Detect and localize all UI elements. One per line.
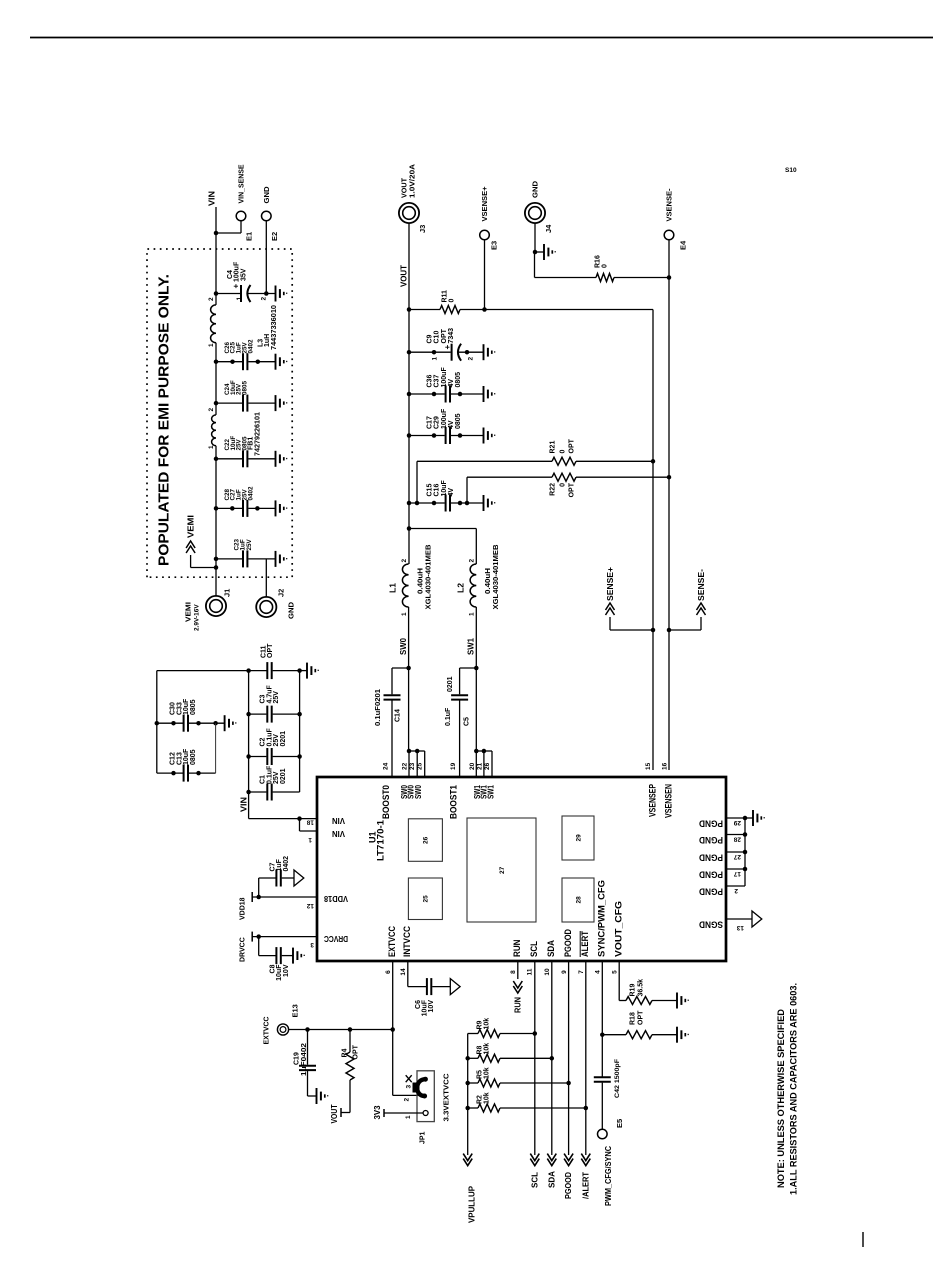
svg-text:VDD18: VDD18 — [323, 894, 348, 903]
wire RUN pin with net arrow — [517, 961, 519, 979]
svg-text:+: + — [232, 284, 241, 289]
svg-text:VOUT: VOUT — [400, 178, 409, 198]
svg-text:1: 1 — [469, 612, 476, 616]
svg-text:SW1: SW1 — [466, 638, 476, 655]
svg-text:20: 20 — [469, 762, 476, 770]
wire VIN bank top link — [156, 671, 158, 774]
svg-text:SW1: SW1 — [486, 785, 495, 799]
svg-text:C10: C10 — [434, 331, 441, 344]
svg-text:C5: C5 — [464, 717, 471, 726]
svg-text:10k: 10k — [484, 1092, 491, 1104]
svg-text:R21: R21 — [550, 441, 557, 454]
svg-text:25V: 25V — [246, 538, 253, 550]
wire VIN caps ground rail — [299, 671, 301, 792]
svg-text:0: 0 — [560, 483, 567, 487]
svg-text:2: 2 — [261, 297, 268, 301]
svg-text:13: 13 — [736, 924, 744, 931]
svg-text:0805: 0805 — [242, 380, 249, 395]
svg-text:E1: E1 — [245, 232, 254, 241]
jumper JP1 3.3VEXTVCC — [417, 1071, 434, 1122]
svg-text:2: 2 — [401, 559, 408, 563]
svg-text:VEMI: VEMI — [184, 602, 193, 622]
polarized capacitor C4 100uF 35V — [214, 291, 219, 296]
capacitor C24 — [214, 401, 219, 406]
signal ground SGND triangle — [752, 911, 762, 927]
svg-text:15: 15 — [645, 762, 652, 770]
wire VSENSEP sense line — [652, 310, 654, 771]
net arrow SCL — [530, 1159, 539, 1166]
resistor R5 10k — [465, 1081, 470, 1086]
capacitor C2 0.1uF — [246, 754, 251, 759]
wire VIN rail from J1 through EMI filter — [215, 446, 217, 596]
inductor L3 1uH 744373360 10 — [211, 305, 216, 343]
svg-text:27: 27 — [499, 866, 506, 874]
svg-text:17: 17 — [733, 870, 741, 877]
svg-text:28: 28 — [576, 896, 583, 904]
svg-text:74279226101: 74279226101 — [255, 412, 262, 456]
svg-text:100uF: 100uF — [441, 367, 448, 388]
svg-text:27: 27 — [733, 853, 741, 860]
wire SGND pin stub — [726, 918, 752, 920]
header rule — [30, 37, 933, 39]
svg-text:VOUT: VOUT — [398, 264, 408, 287]
svg-text:R11: R11 — [442, 290, 449, 303]
banana jack J4 GND — [525, 203, 545, 223]
svg-text:S10: S10 — [785, 167, 797, 174]
svg-text:EXTVCC: EXTVCC — [387, 926, 397, 957]
svg-text:4V: 4V — [448, 379, 455, 388]
wire VPULLUP rail — [467, 1034, 469, 1156]
resistor R21 0 OPT — [416, 461, 418, 503]
resistor R11 0 — [407, 307, 412, 312]
svg-text:0805: 0805 — [242, 436, 249, 451]
svg-text:SGND: SGND — [699, 920, 723, 930]
svg-text:1: 1 — [405, 1115, 412, 1119]
svg-text:SDA: SDA — [546, 1171, 556, 1188]
svg-text:0: 0 — [560, 450, 567, 454]
svg-text:OPT: OPT — [267, 643, 274, 658]
wire VIN feed to IC pins 18 1 — [249, 818, 300, 820]
svg-text:11: 11 — [527, 968, 534, 975]
svg-text:C29: C29 — [434, 416, 441, 429]
svg-text:1.0V/20A: 1.0V/20A — [410, 164, 417, 198]
capacitor C30 C33 — [157, 722, 184, 724]
svg-text:16: 16 — [662, 762, 669, 770]
svg-text:3: 3 — [310, 941, 314, 948]
svg-text:R2: R2 — [477, 1095, 484, 1104]
net tie VOUT at R4 — [340, 1108, 342, 1117]
svg-text:1: 1 — [432, 357, 439, 361]
svg-text:3V3: 3V3 — [373, 1105, 382, 1120]
svg-text:35V: 35V — [240, 268, 247, 281]
svg-text:C19: C19 — [294, 1052, 301, 1065]
svg-text:L1: L1 — [388, 583, 398, 593]
svg-text:23: 23 — [409, 762, 416, 770]
svg-text:+: + — [443, 345, 452, 350]
svg-text:R22: R22 — [550, 483, 557, 496]
svg-text:PGOOD: PGOOD — [563, 929, 573, 957]
svg-text:SENSE-: SENSE- — [696, 569, 706, 601]
wire C12 bank to ground node — [215, 723, 217, 773]
svg-text:7343: 7343 — [448, 328, 455, 344]
svg-text:SCL: SCL — [529, 941, 539, 957]
svg-text:SDA: SDA — [546, 940, 556, 957]
wire L2 up to VOUT rail — [475, 529, 477, 565]
svg-text:0201: 0201 — [447, 676, 454, 692]
svg-text:J1: J1 — [223, 589, 232, 597]
svg-text:VSENSE+: VSENSE+ — [480, 186, 489, 222]
svg-text:PGND: PGND — [699, 870, 723, 880]
turret E4 VSENSE- — [668, 240, 670, 278]
net arrow SENSE- — [667, 628, 672, 633]
svg-text:4: 4 — [595, 970, 602, 974]
svg-text:29: 29 — [733, 819, 741, 826]
svg-text:C37: C37 — [434, 375, 441, 388]
wire J4 to R16 — [534, 252, 536, 278]
wire VOUT_CFG pin — [618, 961, 620, 1001]
capacitor C12 C13 — [157, 772, 184, 774]
svg-text:BOOST0: BOOST0 — [381, 785, 391, 819]
svg-text:24: 24 — [383, 762, 390, 770]
svg-text:PWM_CFG/SYNC: PWM_CFG/SYNC — [604, 1146, 613, 1206]
banana jack J1 VEMI input — [206, 596, 226, 616]
capacitor C23 — [214, 557, 219, 562]
IC inner block 28 — [562, 878, 594, 922]
banana jack J2 GND input — [256, 597, 276, 617]
svg-text:VOUT: VOUT — [330, 1104, 339, 1123]
svg-text:0402: 0402 — [247, 486, 254, 501]
svg-text:5: 5 — [612, 970, 619, 974]
svg-text:E13: E13 — [291, 1004, 300, 1017]
turret E3 VSENSE+ — [482, 307, 487, 312]
resistor R16 0 — [596, 274, 614, 282]
svg-text:LT7170-1: LT7170-1 — [376, 820, 386, 861]
svg-text:36.5k: 36.5k — [638, 979, 645, 997]
svg-text:PGND: PGND — [699, 819, 723, 829]
svg-text:C42 1500pF: C42 1500pF — [614, 1059, 621, 1098]
wire PGOOD pin — [568, 961, 570, 1155]
svg-text:OPT: OPT — [569, 482, 576, 497]
wire VIN feed rail — [248, 671, 250, 819]
IC inner block 27 — [467, 818, 536, 922]
capacitor C7 1uF 0402 — [256, 895, 261, 900]
IC inner block 26 — [408, 819, 442, 862]
capacitor C28 C27 — [214, 506, 219, 511]
resistor R19 36.5k — [626, 997, 652, 1005]
svg-text:0805: 0805 — [455, 372, 462, 388]
inductor L2 0.40uH — [470, 564, 476, 607]
svg-text:22: 22 — [402, 762, 409, 770]
banana jack J3 VOUT — [399, 203, 419, 223]
svg-text:PGND: PGND — [699, 887, 723, 897]
svg-text:FB1: FB1 — [248, 437, 255, 450]
wire SCL pin — [534, 961, 536, 1155]
svg-text:8: 8 — [510, 970, 517, 974]
capacitor C36 C37 100uF — [407, 392, 412, 397]
jumper JP1 no-connect X mark — [406, 1075, 412, 1082]
svg-text:VIN: VIN — [239, 797, 249, 812]
svg-text:2: 2 — [468, 357, 475, 361]
svg-text:4V: 4V — [448, 420, 455, 429]
IC U1 LT7170-1 body — [317, 777, 726, 961]
capacitor C11 OPT — [157, 670, 267, 672]
svg-text:10k: 10k — [484, 1018, 491, 1030]
svg-text:74437336010: 74437336010 — [271, 305, 278, 350]
svg-text:R4: R4 — [341, 1048, 348, 1057]
svg-text:0402: 0402 — [247, 339, 254, 354]
svg-text:VSENSEN: VSENSEN — [664, 784, 674, 818]
turret E2 GND — [264, 291, 269, 296]
svg-text:0805: 0805 — [190, 749, 197, 765]
svg-text:0.1uF: 0.1uF — [445, 707, 452, 726]
svg-text:25: 25 — [423, 895, 430, 903]
svg-text:POPULATED FOR EMI PURPOSE ONLY: POPULATED FOR EMI PURPOSE ONLY. — [156, 274, 173, 566]
capacitor C8 10uF 10V — [256, 934, 261, 939]
wire ALERT pin — [585, 961, 587, 1155]
wire SW1 node — [475, 607, 477, 751]
svg-text:9: 9 — [561, 970, 568, 974]
capacitor C26 C25 — [214, 359, 219, 364]
svg-text:10V: 10V — [283, 964, 290, 977]
IC inner block 25 — [408, 878, 442, 920]
svg-text:1uF0402: 1uF0402 — [301, 1043, 308, 1076]
svg-text:SENSE+: SENSE+ — [605, 567, 615, 601]
wire J2 to C23 ground node — [265, 559, 267, 597]
wire INTVCC pin — [407, 961, 409, 987]
svg-text:1: 1 — [401, 612, 408, 616]
svg-text:NOTE: UNLESS OTHERWISE SPECIFI: NOTE: UNLESS OTHERWISE SPECIFIED — [776, 1008, 786, 1188]
capacitor C42 1500pF — [594, 1081, 611, 1083]
svg-text:3: 3 — [405, 1085, 412, 1089]
wire SW1 pin bar — [476, 750, 492, 752]
svg-text:J4: J4 — [544, 224, 553, 233]
wire EXTVCC pin — [392, 961, 394, 1095]
wire SW0 pin bar — [409, 750, 425, 752]
wire SDA pin — [551, 961, 553, 1155]
svg-text:L2: L2 — [455, 583, 465, 593]
net arrow VPULLUP — [463, 1159, 472, 1166]
svg-text:OPT: OPT — [638, 1010, 645, 1025]
svg-text:4V: 4V — [448, 488, 455, 497]
svg-text:3.3VEXTVCC: 3.3VEXTVCC — [444, 1074, 451, 1122]
svg-text:VSENSE-: VSENSE- — [665, 188, 674, 221]
svg-text:2.9V-16V: 2.9V-16V — [194, 604, 201, 631]
resistor R8 10k — [465, 1056, 470, 1061]
svg-text:0.1uF0201: 0.1uF0201 — [375, 689, 382, 726]
svg-text:PGND: PGND — [699, 835, 723, 845]
svg-text:26: 26 — [423, 836, 430, 844]
IC inner block 29 — [562, 816, 594, 860]
svg-text:R16: R16 — [595, 255, 602, 268]
svg-text:XGL4030-401MEB: XGL4030-401MEB — [491, 544, 500, 610]
svg-text:C16: C16 — [434, 484, 441, 497]
net tie 3V3 at JP1 pin 1 — [384, 1112, 423, 1114]
svg-text:10k: 10k — [484, 1043, 491, 1055]
capacitor C15 C16 10uF — [407, 501, 412, 506]
capacitor C5 boost1 0.1uF 0201 — [459, 701, 461, 777]
resistor R4 OPT — [348, 1027, 353, 1032]
ground at PGND bar — [745, 817, 753, 819]
svg-text:10k: 10k — [484, 1067, 491, 1079]
svg-text:2: 2 — [208, 408, 215, 412]
turret E1 VIN_SENSE — [214, 231, 219, 236]
svg-text:VDD18: VDD18 — [240, 897, 247, 920]
wire L1 to VOUT rail — [408, 223, 410, 564]
capacitor C19 1uF0402 — [305, 1027, 310, 1032]
turret E13 EXTVCC — [277, 1024, 288, 1035]
signal ground for C7 — [294, 870, 304, 886]
svg-text:DRVCC: DRVCC — [240, 937, 247, 962]
svg-text:PGND: PGND — [699, 853, 723, 863]
svg-text:RUN: RUN — [513, 997, 523, 1013]
svg-text:OPT: OPT — [353, 1044, 360, 1059]
svg-text:2: 2 — [469, 559, 476, 563]
svg-text:1: 1 — [236, 297, 243, 301]
svg-text:7: 7 — [578, 970, 585, 974]
svg-text:RUN: RUN — [512, 940, 522, 958]
svg-text:VIN_SENSE: VIN_SENSE — [237, 165, 246, 204]
svg-text:1: 1 — [208, 445, 215, 449]
svg-text:J3: J3 — [418, 225, 427, 233]
capacitor C14 boost0 0.1uF 0201 — [391, 701, 393, 777]
wire PGND pin stubs — [726, 817, 745, 819]
capacitor C3 4.7uF — [246, 712, 251, 717]
svg-text:XGL4030-401MEB: XGL4030-401MEB — [423, 544, 432, 610]
svg-text:28: 28 — [733, 836, 741, 843]
dotted box POPULATED FOR EMI PURPOSE ONLY — [147, 249, 292, 577]
inductor L1 0.40uH — [402, 564, 408, 607]
svg-text:VIN: VIN — [207, 191, 217, 206]
svg-text:E4: E4 — [679, 240, 688, 250]
svg-text:R8: R8 — [477, 1045, 484, 1054]
svg-text:10uF: 10uF — [441, 479, 448, 496]
resistor R18 OPT — [602, 1034, 626, 1036]
svg-text:0: 0 — [449, 299, 456, 303]
svg-text:0201: 0201 — [280, 768, 287, 784]
ground for C8 — [292, 948, 294, 964]
net arrow SDA — [547, 1159, 556, 1166]
wire SYNC/PWM_CFG pin — [601, 961, 603, 1077]
svg-text:100uF: 100uF — [441, 408, 448, 429]
wire SW0 node — [408, 607, 410, 751]
svg-text:GND: GND — [262, 186, 271, 204]
svg-text:J2: J2 — [277, 589, 286, 597]
svg-text:R18: R18 — [630, 1012, 637, 1025]
svg-text:DRVCC: DRVCC — [324, 934, 348, 943]
svg-text:OPT: OPT — [569, 438, 576, 453]
svg-text:2: 2 — [403, 1098, 410, 1102]
capacitor C17 C29 100uF — [407, 433, 412, 438]
capacitor C1 0.1uF — [246, 790, 251, 795]
svg-text:BOOST1: BOOST1 — [448, 785, 458, 819]
svg-text:0805: 0805 — [190, 699, 197, 715]
svg-text:PGOOD: PGOOD — [563, 1172, 573, 1199]
svg-text:10V: 10V — [428, 1000, 435, 1013]
svg-text:E5: E5 — [615, 1119, 624, 1128]
svg-text:29: 29 — [576, 834, 583, 842]
signal ground for C6 — [450, 979, 460, 995]
svg-text:0402: 0402 — [283, 856, 290, 872]
svg-text:1: 1 — [208, 343, 215, 347]
svg-text:VEMI: VEMI — [186, 515, 196, 538]
svg-text:GND: GND — [287, 601, 296, 619]
page mark tick bottom right — [862, 1232, 864, 1247]
svg-text:JP1: JP1 — [419, 1131, 426, 1144]
svg-text:10: 10 — [544, 968, 551, 976]
capacitor C6 10uF 10V — [408, 986, 426, 988]
svg-text:R9: R9 — [477, 1020, 484, 1029]
svg-text:/ALERT: /ALERT — [580, 1171, 590, 1199]
ground at J4 — [543, 244, 545, 260]
svg-text:0805: 0805 — [455, 413, 462, 429]
net arrow VEMI — [191, 567, 216, 569]
svg-text:0: 0 — [602, 264, 609, 268]
net arrow SENSE+ — [651, 628, 656, 633]
wire J4 to ground — [534, 223, 536, 252]
svg-text:VPULLUP: VPULLUP — [466, 1186, 476, 1223]
svg-text:SW0: SW0 — [398, 638, 408, 655]
wire VSENSEN sense line — [668, 278, 670, 771]
svg-text:SCL: SCL — [529, 1172, 539, 1188]
turret E5 — [598, 1129, 608, 1139]
svg-text:18: 18 — [306, 819, 314, 826]
svg-text:25V: 25V — [273, 691, 280, 704]
ferrite bead FB1 742792 26101 — [212, 415, 216, 446]
svg-text:1.ALL RESISTORS AND CAPACITORS: 1.ALL RESISTORS AND CAPACITORS ARE 0603. — [788, 983, 798, 1195]
svg-text:0201: 0201 — [280, 731, 287, 747]
svg-text:C14: C14 — [395, 709, 402, 722]
svg-text:VOUT_CFG: VOUT_CFG — [614, 901, 624, 957]
svg-text:R19: R19 — [630, 984, 637, 997]
svg-text:SYNC/PWM_CFG: SYNC/PWM_CFG — [597, 880, 607, 957]
resistor R22 0 OPT — [466, 477, 468, 503]
svg-text:E3: E3 — [490, 241, 499, 250]
svg-text:OPT: OPT — [441, 328, 448, 343]
capacitor C22 — [214, 457, 219, 462]
svg-text:VSENSEP: VSENSEP — [647, 784, 657, 817]
svg-text:INTVCC: INTVCC — [402, 926, 412, 957]
pin DRVCC wire with tick — [252, 936, 317, 938]
svg-text:19: 19 — [450, 762, 457, 770]
resistor R2 10k — [465, 1106, 470, 1111]
svg-text:12: 12 — [306, 902, 314, 909]
resistor R9 10k — [468, 1033, 478, 1035]
svg-text:E2: E2 — [270, 232, 279, 241]
pin VDD18 wire with tick — [252, 896, 317, 898]
svg-text:2: 2 — [208, 297, 215, 301]
svg-text:2: 2 — [734, 887, 738, 894]
svg-text:SW0: SW0 — [414, 785, 423, 799]
svg-text:R5: R5 — [477, 1070, 484, 1079]
svg-text:VIN: VIN — [332, 816, 345, 825]
svg-text:ALERT: ALERT — [580, 931, 590, 957]
svg-text:VIN: VIN — [332, 829, 345, 838]
ground for C19 — [308, 1095, 317, 1097]
svg-text:EXTVCC: EXTVCC — [262, 1016, 271, 1045]
svg-text:1: 1 — [308, 836, 312, 843]
net arrow /ALERT — [581, 1159, 590, 1166]
polarized capacitor C9 C10 OPT 7343 — [407, 350, 412, 355]
net arrow PGOOD — [564, 1159, 573, 1166]
svg-text:21: 21 — [477, 762, 484, 770]
svg-text:6: 6 — [385, 970, 392, 974]
svg-text:14: 14 — [400, 968, 407, 976]
svg-text:GND: GND — [531, 180, 540, 198]
svg-text:26: 26 — [484, 762, 491, 770]
